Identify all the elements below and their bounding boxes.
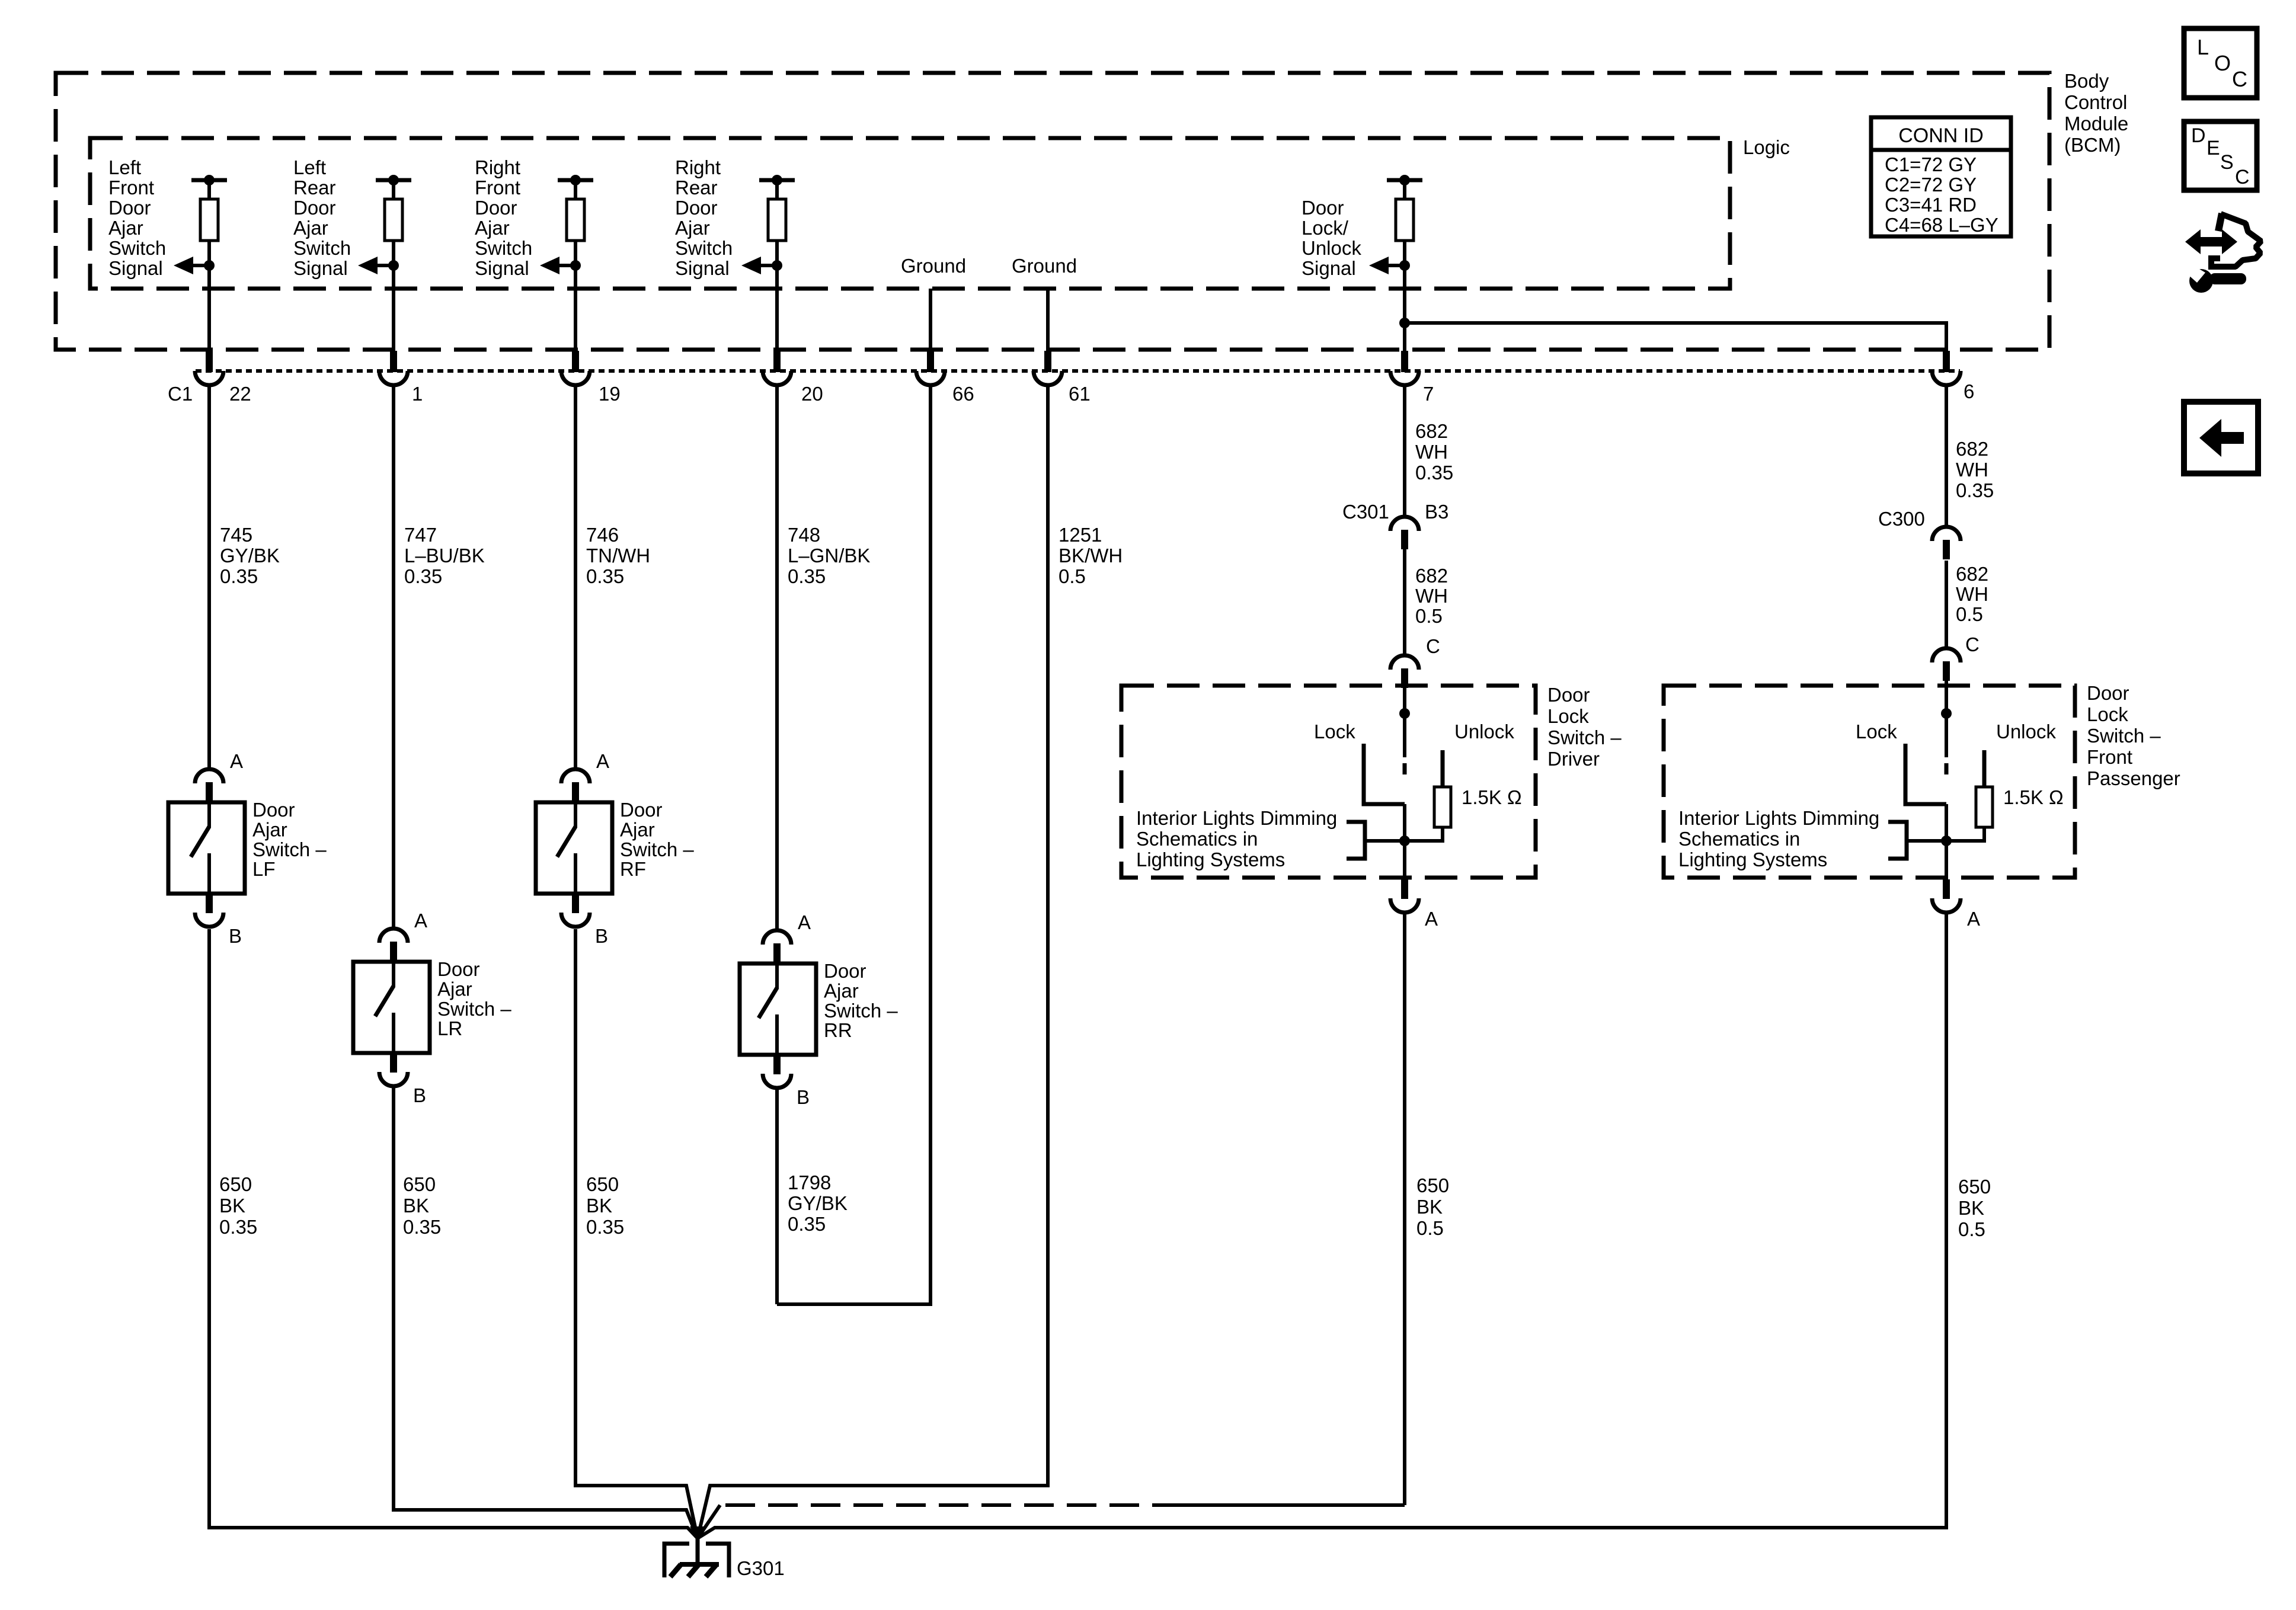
internal bus bar (door lock/unlock driver) [1387,178,1422,183]
node dot [388,175,399,185]
wire: ground 61 inside BCM [1046,289,1050,351]
svg-text:A: A [414,910,427,932]
connector pins row [195,351,1961,385]
svg-text:1: 1 [412,383,423,405]
wire passenger 682 down [1945,385,1948,528]
svg-text:7: 7 [1423,383,1434,405]
Door Ajar Switch RR [740,911,898,1108]
svg-text:22: 22 [229,383,251,405]
lock contact (driver) [1364,744,1405,804]
wire passenger 682 WH 0.5 [1945,561,1948,649]
svg-text:20: 20 [801,383,823,405]
svg-text:C1=72 GY: C1=72 GY [1885,153,1977,175]
signal arrow (RR) [741,257,761,274]
connector C passenger [1932,648,1961,681]
BCM internal driver: door lock/unlock signal [1369,175,1422,351]
wire [1403,241,1406,265]
svg-text:O: O [2214,51,2231,75]
connector C1 pin 1 [390,351,397,372]
wire to pin [775,265,779,351]
internal bus bar (RF driver) [558,178,593,183]
wire RR down [775,385,779,932]
svg-text:66: 66 [952,383,974,405]
connector C1 pin 20 [773,351,781,372]
connector C1 pin 7 [1401,351,1408,372]
svg-text:B3: B3 [1425,501,1448,523]
connector C1 pin 22 [206,351,213,372]
lock contact (front passenger) [1905,744,1946,804]
wire to pin [574,265,577,351]
wire [574,241,577,265]
wire to pin [392,265,395,351]
svg-text:C: C [1965,633,1980,655]
wire LR ground run [394,1088,698,1538]
svg-text:682WH0.35: 682WH0.35 [1956,438,1994,501]
wire RR below switch to joint [775,1088,779,1304]
wire passenger ground run [698,913,1946,1538]
svg-text:682WH0.35: 682WH0.35 [1415,420,1453,484]
internal bus bar (LR driver) [376,178,411,183]
wire to junction [1907,839,1946,843]
svg-text:C2=72 GY: C2=72 GY [1885,174,1977,196]
Door Ajar Switch RF [536,750,694,947]
splice arrow to ground [690,1526,705,1542]
wire: ground 66 inside BCM [929,289,932,351]
BCM internal driver: LR signal [358,175,411,351]
wire RF ground run [575,929,698,1538]
svg-text:L: L [2197,35,2209,59]
signal arrow (door lock/unlock) [1369,257,1389,274]
connector row dotted line C1 [196,369,1960,373]
wire driver ground run dashed [1403,913,1406,1505]
internal bus bar (RR driver) [759,178,795,183]
wire 61 ground down to splice [698,385,1048,1538]
icon arrow-wrench [2185,213,2261,293]
Logic inner dashed box [90,138,1730,289]
Door Ajar Switch LR [353,910,511,1106]
pull-up resistor (LR input) [385,199,402,241]
wire driver 682 WH 0.5 [1403,549,1406,657]
wire to junction [1365,839,1405,843]
interior lights dimming tie bracket (driver) [1347,822,1365,859]
svg-text:1.5K Ω: 1.5K Ω [1462,786,1522,808]
signal arrow (LR) [358,257,378,274]
wire [1405,827,1443,841]
pull-up resistor (door lock/unlock input) [1396,199,1414,241]
svg-text:A: A [1967,908,1980,930]
wire to pin [1403,265,1406,351]
wire LR down [392,385,395,930]
svg-text:A: A [230,750,243,772]
svg-text:Logic: Logic [1743,136,1790,158]
wire: door lock signal branch to pin 6 [1399,318,1410,328]
Door Ajar Switch LF [168,750,327,947]
pull-up resistor (RR input) [768,199,786,241]
icon DESC [2184,121,2257,190]
signal arrow (LF) [174,257,193,274]
ground symbol G301 [664,1544,729,1577]
svg-text:A: A [798,911,811,933]
svg-text:B: B [797,1086,810,1108]
icon LOC [2184,28,2257,98]
svg-text:A: A [596,750,609,772]
svg-text:B: B [595,925,608,947]
node dot [1399,175,1410,185]
svg-text:61: 61 [1069,383,1091,405]
resistor 1.5K (driver) [1434,787,1451,827]
svg-text:Unlock: Unlock [1454,721,1514,742]
pull-up resistor (LF input) [200,199,218,241]
svg-text:B: B [413,1084,426,1106]
connector C301 [1390,517,1419,549]
svg-text:A: A [1425,908,1438,930]
connector C300 [1932,527,1961,559]
wire driver 682 down [1403,385,1406,518]
wire [1946,827,1984,841]
svg-text:C301: C301 [1342,501,1389,523]
svg-text:C300: C300 [1878,508,1925,530]
junction node (front passenger) [1941,836,1952,846]
wire to pin [207,265,211,351]
pull-up resistor (RF input) [567,199,584,241]
svg-text:C: C [1426,635,1440,657]
Door Lock Switch Driver [1121,684,1622,930]
svg-text:C4=68 L–GY: C4=68 L–GY [1885,214,1998,236]
icon left arrow box [2184,402,2258,473]
svg-text:Unlock: Unlock [1996,721,2056,742]
BCM internal driver: RR signal [741,175,795,351]
svg-text:C: C [2232,67,2247,91]
resistor 1.5K (front passenger) [1976,787,1993,827]
signal arrow (RF) [540,257,559,274]
interior lights dimming tie bracket (front passenger) [1888,822,1907,859]
svg-text:C1: C1 [168,383,193,405]
svg-text:Lock: Lock [1856,721,1897,742]
svg-text:1.5K Ω: 1.5K Ω [2003,786,2064,808]
node dot [772,175,782,185]
wire [775,241,779,265]
svg-text:6: 6 [1964,380,1974,402]
wire [392,241,395,265]
BCM internal driver: RF signal [540,175,593,351]
connector C driver [1390,655,1419,688]
svg-text:G301: G301 [737,1557,785,1579]
svg-text:S: S [2220,151,2234,174]
svg-text:C3=41 RD: C3=41 RD [1885,194,1977,216]
connector C1 pin 19 [572,351,579,372]
wire LF ground run [209,929,698,1538]
svg-text:B: B [229,925,242,947]
connector C1 pin 6 [1943,351,1950,372]
junction node (driver) [1399,836,1410,846]
svg-text:D: D [2191,124,2206,147]
svg-text:CONN ID: CONN ID [1898,124,1984,147]
wire LF down [207,385,211,771]
svg-text:C: C [2235,166,2250,188]
internal bus bar (LF driver) [191,178,227,183]
BCM internal driver: LF signal [174,175,227,351]
node dot [204,175,215,185]
CONN ID table [1871,117,2011,236]
svg-text:19: 19 [599,383,621,405]
Door Lock Switch Front Passenger [1664,680,2180,930]
BCM outer dashed box [56,73,2049,350]
svg-text:Ground: Ground [1012,255,1077,277]
wire RF down [574,385,577,771]
svg-text:Ground: Ground [901,255,966,277]
wire [207,241,211,265]
connector C1 pin 61 [1044,351,1051,372]
svg-text:Lock: Lock [1314,721,1355,742]
wire 66 ground down, right join to RR [777,385,930,1304]
connector C1 pin 66 [927,351,934,372]
node dot [570,175,581,185]
svg-text:E: E [2207,137,2220,159]
